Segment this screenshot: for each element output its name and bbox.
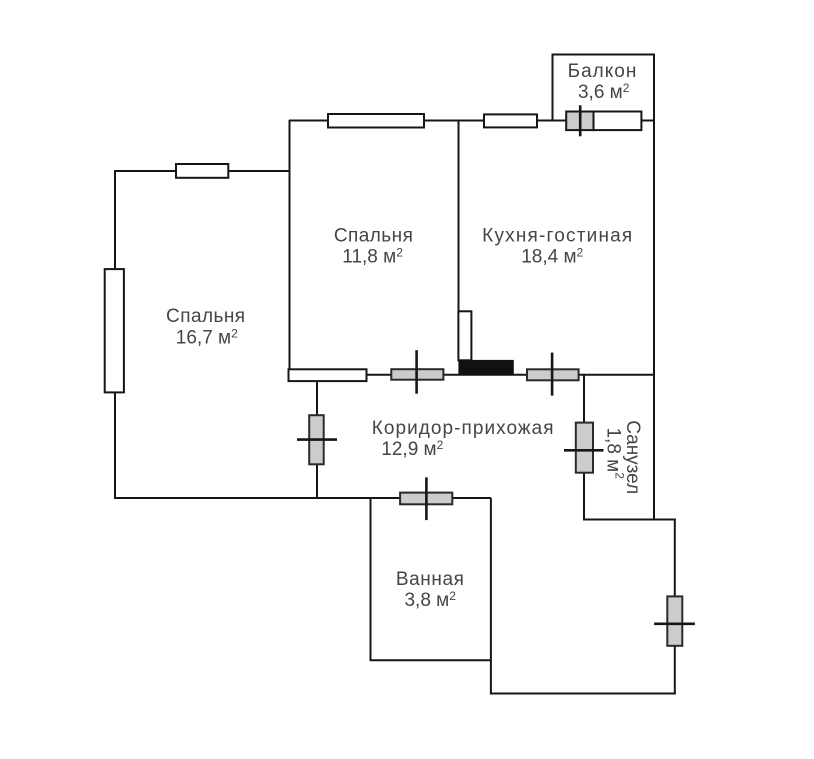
wall stub (white) near kitchen divider (458, 311, 471, 360)
svg-text:11,8 м2: 11,8 м2 (342, 246, 403, 268)
window: bedroom-16.7 left wall (tall) (105, 269, 124, 392)
svg-text:18,4 м2: 18,4 м2 (521, 246, 583, 268)
balcony door axis line (579, 105, 582, 136)
wall: bath right going to bottom (490, 498, 492, 695)
window: bedroom-16.7 top wall (176, 164, 228, 178)
door: bath (gray, on bath top wall) (400, 493, 452, 505)
wall: bedroom-16.7 left (114, 170, 116, 499)
svg-text:1,8 м2: 1,8 м2 (603, 427, 627, 479)
svg-text:16,7 м2: 16,7 м2 (176, 326, 238, 348)
door: bedroom-16.7 (gray, on corridor left wall) (309, 415, 324, 464)
wall: bedroom-16.7 top (114, 170, 290, 172)
svg-text:Спальня: Спальня (334, 225, 414, 246)
svg-text:Санузел: Санузел (622, 420, 643, 494)
svg-text:Балкон: Балкон (568, 61, 638, 82)
wall: corridor/bath bottom horizontal (114, 497, 491, 499)
window: kitchen top wall (484, 114, 537, 127)
wall: balcony top (553, 54, 656, 56)
svg-text:3,8 м2: 3,8 м2 (404, 589, 456, 611)
door: wc (gray, on wc left wall) (576, 423, 593, 473)
wall: bath bottom (370, 659, 491, 661)
wall: wc left (583, 374, 585, 520)
wall: corridor left vertical (316, 380, 318, 499)
black wall block (458, 360, 513, 375)
balcony door (gray) (566, 112, 593, 131)
svg-text:12,9 м2: 12,9 м2 (381, 438, 443, 460)
wall: right outer (balcony/kitchen/wc) (653, 54, 655, 521)
wall: right lower vertical (674, 519, 676, 695)
wall: bath left (370, 498, 372, 661)
wall: bedroom-11.8 left (289, 120, 291, 371)
svg-text:Спальня: Спальня (166, 306, 246, 327)
svg-text:3,6 м2: 3,6 м2 (578, 81, 630, 103)
svg-text:Коридор-прихожая: Коридор-прихожая (372, 418, 555, 439)
wall: bottom outer (490, 693, 676, 695)
wall: balcony left (552, 54, 554, 122)
wall: middle horizontal (under bedrooms/kitchen) (289, 374, 655, 376)
wall: top main (bedroom 11.8 + kitchen) (289, 120, 655, 122)
window: bedroom-11.8 top wall (328, 114, 424, 128)
door: kitchen (gray, on middle wall) (527, 369, 579, 380)
wall: wc bottom step (583, 519, 676, 521)
door: bedroom-11.8 (gray, on middle wall) (391, 369, 443, 380)
wall: bedroom/kitchen divider (458, 120, 460, 313)
door: entrance (gray, on right lower wall) (667, 596, 682, 645)
svg-text:Кухня-гостиная: Кухня-гостиная (482, 225, 633, 246)
balcony window (white) (594, 112, 642, 131)
svg-text:Ванная: Ванная (396, 569, 465, 590)
opening (white) bedroom-11.8 bottom (289, 369, 367, 381)
